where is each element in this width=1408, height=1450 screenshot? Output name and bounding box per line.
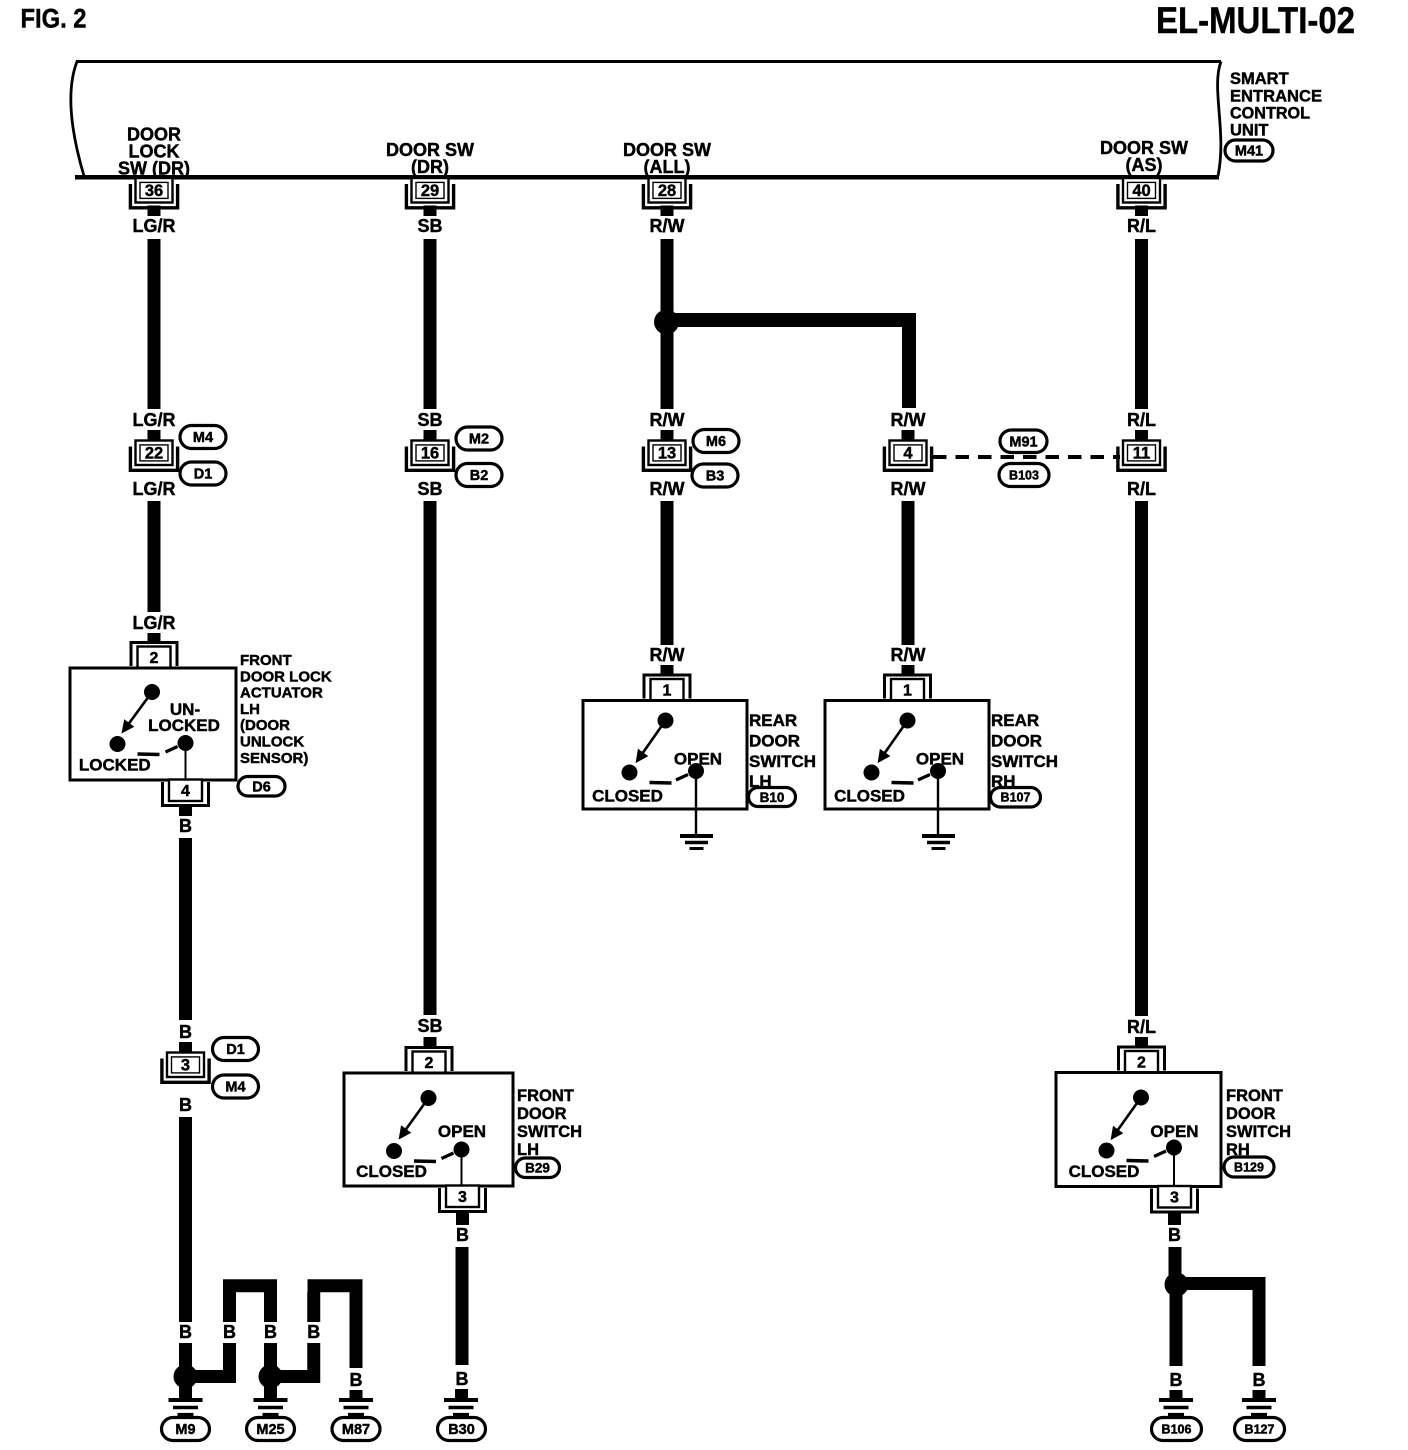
wire SB column 2 long [424,501,437,1015]
wire R/W below junction [661,330,674,409]
wire stub to ground B106 [1170,1390,1183,1398]
wire B to ground B30 [456,1247,469,1365]
front door lock actuator pin 4 [163,782,209,806]
wire R/W branch lower [902,501,915,645]
front door switch RH pin 3 [1152,1189,1198,1213]
svg-text:29: 29 [421,182,439,200]
terminal 40 connector [1118,184,1165,208]
rear door switch LH CLOSED contact dot [622,765,638,781]
wire stub above front door switch RH pin 2 [1135,1037,1148,1048]
svg-text:D1: D1 [194,467,213,483]
svg-text:1: 1 [663,683,672,700]
connector ref B29 [516,1158,560,1178]
svg-text:2: 2 [425,1055,434,1072]
connector ref B10 [749,788,796,807]
wire OPEN contact to ground [937,771,939,836]
svg-text:FRONT: FRONT [240,652,292,669]
wire SB column 2 upper [424,239,437,409]
ground symbol B127 [1242,1398,1276,1402]
wire stub below terminal 28 [661,206,674,217]
connector M91/B103 terminal 4 [884,447,931,471]
svg-text:28: 28 [658,182,676,200]
wire R/L column 4 upper [1135,239,1148,409]
wire stub to ground B127 [1253,1390,1266,1398]
smart entrance control unit box left torn edge [71,62,84,177]
wire OPEN contact to ground [695,771,697,836]
svg-text:B: B [1170,1370,1183,1390]
svg-text:B127: B127 [1245,1422,1275,1436]
wire LG/R column 1 lower [148,501,161,612]
svg-text:B: B [1168,1225,1181,1245]
svg-text:SWITCH: SWITCH [749,752,816,771]
svg-text:2: 2 [1137,1055,1146,1072]
rear door switch LH OPEN contact dot [688,763,704,779]
svg-text:SWITCH: SWITCH [1226,1123,1291,1141]
wire junction to ground M25 [264,1380,277,1398]
ground symbol M9 [169,1398,203,1402]
svg-text:CLOSED: CLOSED [1069,1162,1140,1181]
junction node at ground M9 [174,1365,198,1389]
ground symbol B30 [444,1398,478,1402]
svg-text:SWITCH: SWITCH [517,1123,582,1141]
svg-text:B: B [307,1322,320,1342]
rear door switch LH pivot dot [658,713,674,729]
svg-text:DOOR: DOOR [517,1105,567,1123]
rear door switch RH contact arc [892,781,914,785]
svg-text:B: B [350,1370,363,1390]
svg-text:CLOSED: CLOSED [834,787,905,806]
wire OPEN contact to pin 3 [1173,1148,1175,1187]
svg-text:B10: B10 [760,790,785,805]
rear door switch LH lever [639,721,666,760]
ground ref B127 [1235,1418,1285,1441]
svg-text:M4: M4 [193,430,213,446]
svg-text:CLOSED: CLOSED [592,787,663,806]
front door switch LH OPEN contact dot [454,1142,470,1158]
svg-text:R/L: R/L [1127,410,1156,430]
rear door switch LH contact arc [650,781,672,785]
svg-text:B103: B103 [1009,468,1039,482]
svg-text:SB: SB [417,1016,442,1036]
svg-text:B30: B30 [448,1422,475,1438]
svg-text:B129: B129 [1234,1160,1264,1174]
svg-text:SW (DR): SW (DR) [118,159,190,179]
junction node at ground M25 [259,1365,283,1389]
connector ref M4 [180,426,226,449]
svg-text:REAR: REAR [991,711,1039,730]
front door switch RH pivot dot [1133,1090,1149,1106]
svg-text:FRONT: FRONT [1226,1087,1283,1105]
svg-text:SB: SB [417,216,442,236]
wire stub above front door switch LH pin 2 [424,1037,437,1048]
svg-text:(ALL): (ALL) [644,157,691,177]
ground symbol rear door switch RH [922,834,955,838]
svg-text:B: B [179,1322,192,1342]
svg-text:B: B [456,1369,469,1389]
wire stub to ground M87 [350,1390,363,1398]
ground ref M25 [247,1418,295,1441]
svg-text:13: 13 [658,445,676,463]
connector ref M41 [1225,140,1273,161]
front door switch LH CLOSED contact dot [386,1143,402,1159]
connector ref M91 [1000,430,1047,453]
svg-text:REAR: REAR [749,711,797,730]
wire stub below pin 3 [1168,1211,1181,1225]
connector ref B2 [456,464,502,487]
wire from M25 junction to bridge 2 [275,1370,314,1383]
connector ref M4 [213,1075,259,1098]
svg-text:B: B [179,1022,192,1042]
connector M4/D1 terminal 22 [130,447,177,471]
front door switch LH lever [402,1098,429,1136]
bridge wire 1 right leg upper [264,1292,277,1322]
svg-text:M25: M25 [256,1422,284,1438]
wire stub to ground B30 [455,1389,468,1398]
connector ref M2 [456,427,502,450]
connector ref B107 [991,788,1041,808]
wire from M9 junction to bridge 1 [190,1370,230,1383]
wire B to junction [1169,1247,1182,1276]
svg-text:R/W: R/W [891,645,926,665]
ground ref B106 [1152,1418,1202,1441]
bridge wire 2 top bar [308,1279,363,1292]
front door switch LH pivot dot [421,1090,437,1106]
svg-text:M6: M6 [706,434,726,450]
svg-text:LG/R: LG/R [133,479,176,499]
wire stub below terminal 36 [148,206,161,217]
connector ref B103 [999,464,1049,487]
front door switch RH lever [1114,1098,1142,1137]
front door switch LH contact arc [414,1159,436,1163]
junction node R/W branch [654,310,679,335]
svg-text:B: B [179,1095,192,1115]
svg-text:R/W: R/W [650,410,685,430]
wire B column 1 [179,838,192,1020]
svg-text:B3: B3 [706,469,725,485]
svg-text:(DOOR: (DOOR [240,717,290,734]
front door switch RH OPEN contact dot [1166,1140,1182,1156]
svg-text:3: 3 [181,1057,190,1075]
wire B junction branch elbow to ground B127 [1176,1284,1259,1367]
svg-text:LG/R: LG/R [133,613,176,633]
svg-text:OPEN: OPEN [438,1122,486,1141]
svg-text:M4: M4 [225,1080,245,1096]
svg-text:SB: SB [417,410,442,430]
smart entrance control unit box right torn edge [1218,62,1221,177]
svg-text:B: B [223,1322,236,1342]
svg-text:3: 3 [458,1189,467,1206]
svg-text:ACTUATOR: ACTUATOR [240,685,323,702]
wire R/W column 3 upper [661,239,674,312]
svg-text:SB: SB [417,479,442,499]
svg-text:3: 3 [1170,1190,1179,1207]
connector D1/M4 terminal 3 [162,1059,209,1083]
svg-text:22: 22 [145,445,163,463]
svg-text:R/L: R/L [1127,479,1156,499]
svg-text:R/W: R/W [650,645,685,665]
rear door switch LH pin 1 [644,675,690,699]
svg-text:FIG. 2: FIG. 2 [21,4,87,34]
svg-text:LH: LH [517,1141,539,1159]
rear door switch RH pin 1 [885,675,931,699]
actuator switch lever [125,692,153,730]
svg-text:M2: M2 [469,432,489,448]
bridge wire 2 left leg lower [307,1343,320,1383]
wire B to ground M9 [179,1117,192,1322]
svg-text:EL-MULTI-02: EL-MULTI-02 [1156,0,1355,41]
svg-text:M41: M41 [1235,144,1263,160]
wire stub above connector 16 [424,430,437,440]
connector ref M6 [693,430,739,453]
rear door switch RH CLOSED contact dot [864,765,880,781]
rear door switch RH lever [881,721,908,760]
ground symbol B106 [1159,1398,1193,1402]
bridge wire 2 right leg [350,1292,363,1368]
wire B left leg to ground B106 [1170,1290,1183,1366]
wire LG/R column 1 upper [148,239,161,409]
svg-text:CLOSED: CLOSED [356,1162,427,1181]
front door switch RH contact arc [1127,1159,1149,1163]
bridge wire 1 left leg upper [223,1292,236,1322]
rear door switch RH OPEN contact dot [930,763,946,779]
svg-text:(DR): (DR) [411,157,449,177]
front door switch RH box [1056,1073,1221,1187]
svg-text:4: 4 [181,783,190,800]
actuator LOCKED contact dot [110,736,126,752]
smart entrance control unit box bottom edge [75,175,1219,180]
svg-text:R/W: R/W [650,216,685,236]
svg-text:SWITCH: SWITCH [991,752,1058,771]
front door switch LH box [344,1073,513,1186]
front door switch LH pin 3 [440,1188,486,1212]
svg-text:M9: M9 [175,1422,195,1438]
ground symbol rear door switch LH [680,834,713,838]
ground ref M87 [332,1418,380,1441]
wire stub below terminal 29 [424,206,437,217]
wire B above junction [179,1343,192,1366]
connector M2/B2 terminal 16 [406,447,453,471]
svg-text:D6: D6 [252,779,271,795]
svg-text:R/W: R/W [891,479,926,499]
wire stub above connector 3 [179,1042,192,1052]
ground ref M9 [162,1418,210,1441]
wire stub below terminal 40 [1135,206,1148,217]
wire from unlocked contact to pin 4 [185,743,187,780]
wire stub below pin 3 [456,1211,469,1226]
ground symbol M87 [339,1398,373,1402]
bridge wire 1 right leg lower [264,1343,277,1368]
actuator UNLOCKED contact dot [178,735,194,751]
svg-text:R/W: R/W [891,410,926,430]
svg-text:OPEN: OPEN [1150,1122,1198,1141]
front door switch RH pin 2 [1119,1047,1165,1071]
svg-text:UNLOCK: UNLOCK [240,734,304,751]
front door switch RH CLOSED contact dot [1099,1143,1115,1159]
svg-text:R/L: R/L [1127,1017,1156,1037]
svg-text:M87: M87 [342,1422,370,1438]
connector ref B3 [692,464,738,487]
wire stub above actuator pin 2 [148,633,161,643]
svg-text:LH: LH [240,701,260,718]
svg-text:4: 4 [903,445,913,463]
wire stub above rear door switch RH pin 1 [902,665,915,676]
terminal 36 connector [130,184,177,208]
wire R/L column 4 long [1135,501,1148,1016]
svg-text:B2: B2 [470,468,489,484]
svg-text:DOOR: DOOR [749,731,800,750]
connector ref D1 [213,1038,259,1061]
wire stub above connector 4 [902,430,915,440]
svg-text:OPEN: OPEN [916,750,964,769]
svg-text:SENSOR): SENSOR) [240,750,308,767]
rear door switch RH box [825,701,989,810]
svg-text:40: 40 [1132,182,1150,200]
bridge wire 2 left leg upper [307,1292,320,1322]
svg-text:M91: M91 [1009,434,1037,450]
connector ref D6 [238,777,285,797]
svg-text:B: B [1253,1370,1266,1390]
connector ref B129 [1224,1157,1274,1177]
svg-text:FRONT: FRONT [517,1087,574,1105]
connector M6/B3 terminal 13 [643,447,690,471]
bridge wire 1 top bar [223,1279,277,1292]
wire R/W branch horizontal + vertical elbow [666,320,909,408]
svg-text:DOOR: DOOR [991,731,1042,750]
svg-text:11: 11 [1133,445,1150,463]
svg-text:CONTROL: CONTROL [1230,105,1310,123]
wire stub below pin 4 [179,805,192,817]
wire OPEN contact to pin 3 [461,1150,463,1187]
svg-text:2: 2 [150,650,159,667]
svg-text:D1: D1 [226,1042,245,1058]
svg-text:B106: B106 [1162,1422,1192,1436]
wire stub above connector 11 [1135,430,1148,440]
svg-text:SMART: SMART [1230,70,1289,88]
svg-text:LOCKED: LOCKED [79,756,151,775]
svg-text:36: 36 [145,182,163,200]
svg-text:B: B [179,816,192,836]
svg-text:LG/R: LG/R [133,216,176,236]
front door lock actuator LH box [70,668,236,780]
svg-text:OPEN: OPEN [674,750,722,769]
svg-text:B29: B29 [525,1161,550,1176]
front door switch LH pin 2 [406,1048,452,1072]
connector ref D1 [180,462,226,485]
wire stub above connector 13 [661,430,674,440]
ground ref B30 [438,1418,486,1441]
svg-text:LOCKED: LOCKED [148,716,220,735]
svg-text:B: B [456,1225,469,1245]
svg-text:UNIT: UNIT [1230,122,1269,140]
smart entrance control unit box top edge [76,60,1221,63]
terminal 28 connector [643,184,690,208]
rear door switch LH box [583,701,747,810]
terminal 29 connector [406,184,453,208]
ground symbol M25 [254,1398,288,1402]
rear door switch RH pivot dot [900,713,916,729]
svg-text:ENTRANCE: ENTRANCE [1230,88,1322,106]
svg-text:1: 1 [903,683,912,700]
svg-text:DOOR: DOOR [1226,1105,1276,1123]
junction node front door switch RH ground [1165,1273,1189,1297]
svg-text:R/L: R/L [1127,216,1156,236]
svg-text:16: 16 [421,445,439,463]
actuator switch pivot dot [144,684,160,700]
connector M91/B103 terminal 11 [1118,447,1165,471]
svg-text:DOOR LOCK: DOOR LOCK [240,668,332,685]
svg-text:B107: B107 [1001,791,1031,805]
wire stub above rear door switch LH pin 1 [661,665,674,676]
svg-text:(AS): (AS) [1126,155,1163,175]
svg-text:R/W: R/W [650,479,685,499]
bridge wire 1 left leg lower [223,1343,236,1383]
svg-text:LG/R: LG/R [133,410,176,430]
wire junction to ground M9 [179,1380,192,1398]
wire stub above connector 22 [148,430,161,440]
wire R/W column 3 lower [661,501,674,645]
actuator contact arc [138,752,160,756]
dashed link terminal 4 to terminal 11 [933,455,1120,459]
svg-text:B: B [264,1322,277,1342]
front door lock actuator pin 2 [131,643,177,667]
